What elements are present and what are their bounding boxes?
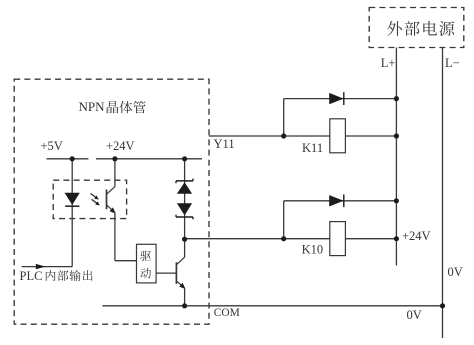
svg-text:+5V: +5V — [41, 139, 63, 153]
svg-text:L−: L− — [445, 56, 460, 70]
svg-text:L+: L+ — [381, 56, 396, 70]
svg-text:NPN: NPN — [79, 99, 106, 114]
svg-text:+24V: +24V — [106, 139, 135, 153]
svg-text:PLC: PLC — [20, 269, 43, 283]
svg-text:Y11: Y11 — [214, 137, 235, 151]
svg-text:0V: 0V — [448, 265, 463, 279]
svg-text:K11: K11 — [302, 141, 323, 155]
svg-text:K10: K10 — [302, 243, 324, 257]
svg-text:COM: COM — [214, 307, 240, 319]
svg-text:+24V: +24V — [402, 229, 431, 243]
svg-text:0V: 0V — [407, 308, 422, 322]
